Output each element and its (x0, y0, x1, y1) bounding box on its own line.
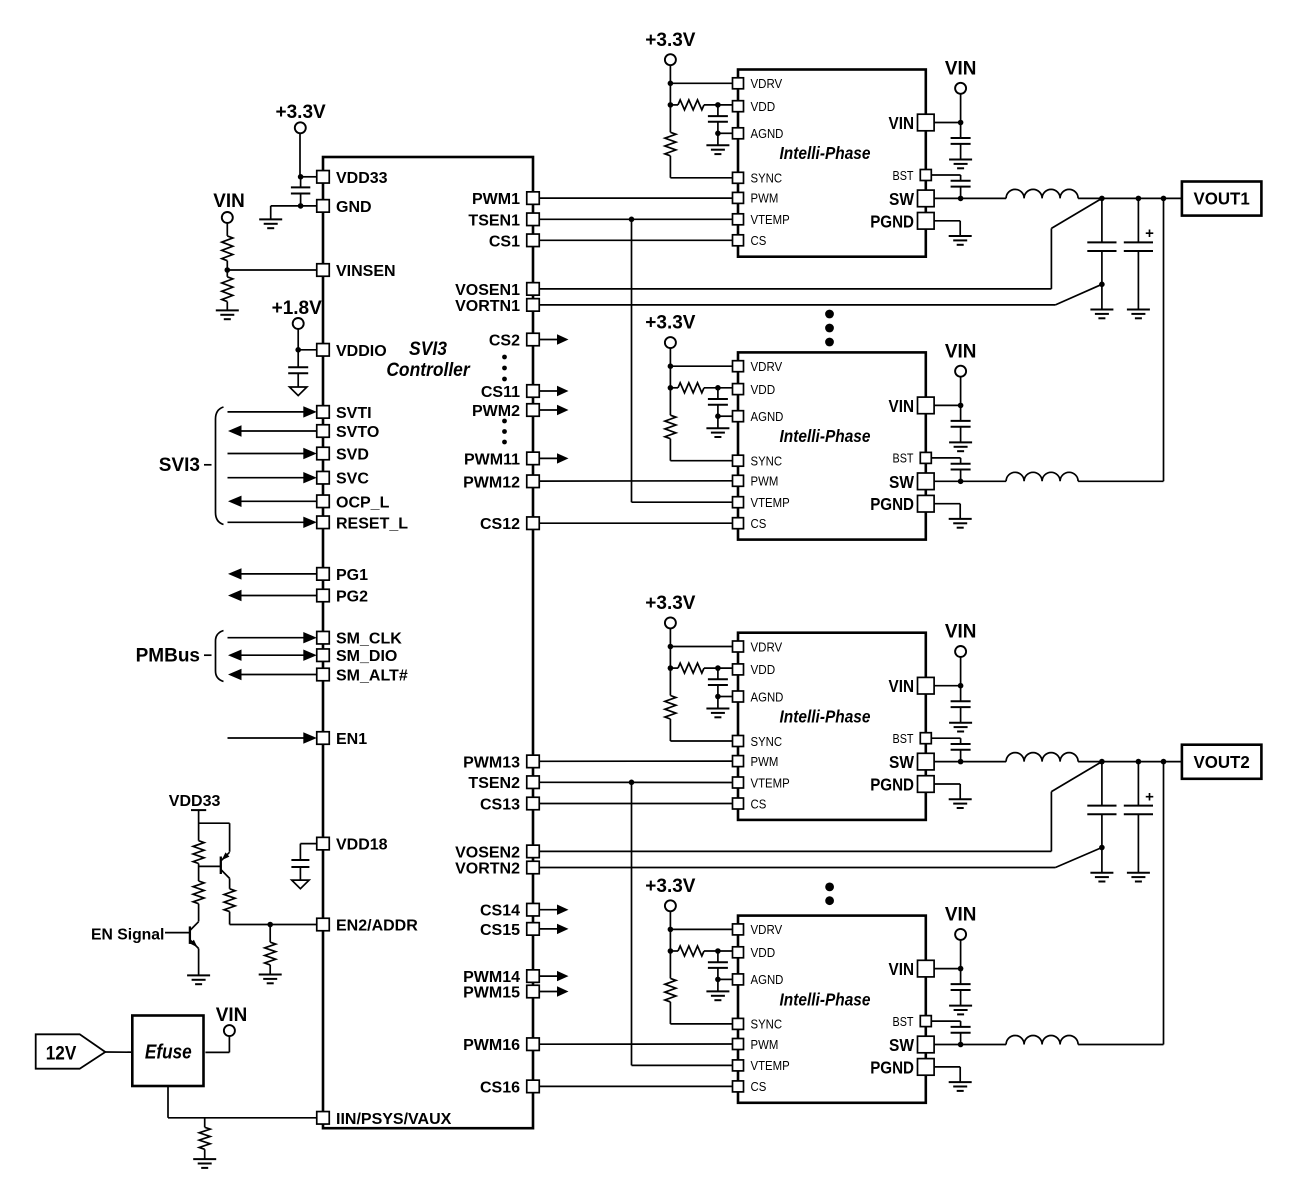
node VDRV junction (U2) (668, 81, 674, 87)
svg-text:SW: SW (889, 189, 914, 209)
wire VIN supply (U5) (934, 940, 961, 985)
supply VIN (U2) (945, 58, 977, 93)
wire CS12 to U3 (540, 522, 733, 524)
ground (Q2 emitter) (187, 975, 210, 984)
svg-text:PWM2: PWM2 (472, 403, 520, 420)
wire VINSEN (227, 269, 316, 271)
supply +1.8V (272, 298, 323, 329)
node VDD rail junction (U4) (668, 665, 674, 671)
svg-text:+3.3V: +3.3V (645, 30, 696, 51)
controller U1 (SVI3 Controller) (323, 157, 533, 1128)
wire PGND (U5) (934, 1067, 960, 1082)
inductor L4 (U5) (1006, 1036, 1078, 1045)
wire SVD input arrow (228, 448, 317, 459)
pin AGND of U4 (733, 689, 784, 704)
wire PWM11 stub arrow (540, 453, 569, 463)
node VIN junction (U4) (958, 683, 964, 689)
svg-text:+3.3V: +3.3V (645, 593, 696, 614)
wire +3.3V rail (U3) (669, 348, 671, 415)
pin PGND of U4 (870, 775, 934, 795)
svg-text:CS1: CS1 (489, 233, 520, 250)
net flag 12V (36, 1034, 106, 1068)
ground VIN cap (U3) (949, 442, 972, 451)
svg-text:PGND: PGND (870, 494, 914, 514)
pin SVTO of U1 (317, 424, 380, 441)
wire inductor to VOUT1 node (1078, 197, 1182, 199)
ground ceramic cap (VOUT1) (1090, 310, 1113, 319)
svg-text:SW: SW (889, 1035, 914, 1055)
node VDD rail junction (U3) (668, 385, 674, 391)
node AGND junction (U4) (715, 694, 721, 700)
wire +3.3V to VDD33 (300, 133, 317, 176)
pin VORTN2 of U1 (455, 861, 539, 878)
pin PGND of U3 (870, 494, 934, 514)
pin PWM2 of U1 (472, 403, 539, 420)
wire Efuse output to VIN (205, 1036, 229, 1053)
svg-text:CS: CS (751, 796, 767, 811)
svg-text:SW: SW (889, 472, 914, 492)
wire VDRV (U5) (670, 928, 732, 930)
pin GND of U1 (317, 199, 372, 216)
resistor SYNC pulldown (U4) (665, 696, 676, 720)
node AGND junction (U3) (715, 413, 721, 419)
wire TSEN2 to U4 VTEMP (540, 781, 733, 783)
node SW/BST junction (U4) (958, 759, 964, 765)
pin VDD18 of U1 (317, 837, 388, 854)
pin PWM15 of U1 (463, 985, 539, 1002)
pin VDRV of U3 (733, 359, 783, 374)
ground VIN cap (U5) (949, 1006, 972, 1015)
pin PWM11 of U1 (464, 451, 539, 468)
pin PWM12 of U1 (463, 474, 539, 491)
svg-text:SVTI: SVTI (336, 405, 372, 422)
wire VORTN2 sense (540, 848, 1102, 868)
svg-text:IIN/PSYS/VAUX: IIN/PSYS/VAUX (336, 1111, 452, 1128)
pin VOSEN1 of U1 (455, 282, 539, 299)
wire +3.3V rail (U4) (669, 628, 671, 695)
svg-text:+1.8V: +1.8V (272, 298, 323, 319)
wire PGND (U4) (934, 784, 960, 799)
wire PWM14 stub arrow (540, 971, 569, 981)
wire VOSEN2 sense (540, 762, 1102, 852)
wire SM_CLK input arrow (228, 632, 317, 643)
svg-text:VTEMP: VTEMP (751, 775, 790, 790)
pin PWM16 of U1 (463, 1037, 539, 1054)
node AGND junction (U5) (715, 977, 721, 983)
pin CS13 of U1 (480, 797, 539, 814)
pin VINSEN of U1 (317, 263, 396, 280)
pin VIN of U5 (889, 959, 935, 979)
capacitor BST (U3) (931, 458, 971, 481)
pin VDD of U4 (733, 662, 776, 677)
svg-text:PGND: PGND (870, 211, 914, 231)
ground electrolytic cap (VOUT2) (1127, 873, 1150, 882)
wire PWM2 stub arrow (540, 405, 569, 415)
svg-text:BST: BST (893, 451, 914, 466)
svg-text:+3.3V: +3.3V (645, 313, 696, 334)
resistor R6 (EN2 pulldown) (265, 925, 276, 975)
supply VDD33 (EN2 circuit) (169, 793, 221, 810)
node VDD rail junction (U5) (668, 948, 674, 954)
node TSEN2 branch (629, 780, 635, 786)
wire CS1 to U2 (540, 239, 733, 241)
node VOUT1 return junction (1099, 282, 1105, 288)
ground (EN2 pulldown) (259, 975, 282, 984)
node SW/BST junction (U3) (958, 479, 964, 485)
capacitor ceramic (VOUT1) (1087, 198, 1116, 309)
Efuse U6 (132, 1016, 203, 1087)
pin SVC of U1 (317, 471, 370, 488)
capacitor C2 (VDDIO decoupling) (288, 350, 308, 387)
pin VDRV of U5 (733, 922, 783, 937)
capacitor VDD decoupling (U5) (708, 951, 728, 991)
pin CS of U2 (733, 233, 767, 248)
svg-text:12V: 12V (46, 1043, 77, 1064)
svg-text:SYNC: SYNC (751, 454, 783, 469)
svg-text:SVC: SVC (336, 471, 369, 488)
svg-text:PWM: PWM (751, 754, 779, 769)
svg-text:EN1: EN1 (336, 731, 367, 748)
pin TSEN2 of U1 (468, 775, 539, 792)
ground electrolytic cap (VOUT1) (1127, 310, 1150, 319)
svg-text:VIN: VIN (945, 341, 977, 362)
analog ground (VDD18) (292, 880, 309, 889)
svg-text:VIN: VIN (889, 676, 915, 696)
pin SVTI of U1 (317, 405, 372, 422)
transistor Q1 (PNP) (221, 852, 230, 878)
resistor R1 (VIN divider upper) (222, 236, 233, 261)
node VIN junction (U3) (958, 403, 964, 409)
svg-text:SVTO: SVTO (336, 424, 379, 441)
node EN2/ADDR junction (267, 922, 273, 928)
wire base of Q1 (199, 865, 221, 867)
svg-text:VTEMP: VTEMP (751, 212, 790, 227)
svg-text:VDRV: VDRV (751, 76, 783, 91)
pin VIN of U3 (889, 396, 935, 416)
node AGND junction (U2) (715, 131, 721, 137)
ground PGND (U2) (949, 236, 972, 245)
svg-text:VOSEN2: VOSEN2 (455, 844, 520, 861)
svg-text:PGND: PGND (870, 1057, 914, 1077)
svg-text:PWM13: PWM13 (463, 754, 520, 771)
pin VDDIO of U1 (317, 343, 387, 360)
pin CS of U5 (733, 1079, 767, 1094)
wire SW to inductor (U5) (934, 1044, 1006, 1046)
svg-text:SM_DIO: SM_DIO (336, 648, 397, 665)
pin PWM of U4 (733, 754, 779, 769)
pin PG1 of U1 (317, 567, 368, 584)
svg-text:PWM15: PWM15 (463, 985, 520, 1002)
wire OCP_L output arrow (228, 496, 317, 507)
wire PGND (U3) (934, 504, 960, 519)
capacitor BST (U4) (931, 738, 971, 761)
wire VORTN1 sense (540, 284, 1102, 305)
svg-text:+3.3V: +3.3V (645, 876, 696, 897)
wire +1.8V to VDDIO (298, 329, 316, 350)
Intelli-Phase U3 title (780, 426, 871, 446)
node VDD cap junction (U3) (715, 385, 721, 391)
node VDRV junction (U4) (668, 644, 674, 650)
pin PGND of U5 (870, 1057, 934, 1077)
Intelli-Phase U4 title (780, 706, 871, 726)
node VDD cap junction (U5) (715, 948, 721, 954)
pin PWM of U2 (733, 191, 779, 206)
transistor Q2 (NPN) (190, 922, 199, 949)
supply +3.3V (U5) (645, 876, 696, 911)
pin VTEMP of U5 (733, 1058, 790, 1073)
pin SW of U5 (889, 1035, 934, 1055)
ground PGND (U5) (949, 1082, 972, 1091)
pin CS of U3 (733, 516, 767, 531)
pin PGND of U2 (870, 211, 934, 231)
svg-text:CS12: CS12 (480, 516, 520, 533)
wire SM_DIO bidirectional arrow (228, 650, 317, 661)
capacitor ceramic (VOUT2) (1087, 762, 1116, 873)
pin AGND of U2 (733, 126, 784, 141)
pin CS16 of U1 (480, 1079, 539, 1096)
supply VIN (U4) (945, 622, 977, 657)
svg-text:Intelli-Phase: Intelli-Phase (780, 143, 871, 163)
wire R5 to EN2/ADDR (230, 912, 317, 925)
svg-text:VINSEN: VINSEN (336, 263, 396, 280)
wire resistor to VDD pin (U5) (670, 950, 732, 952)
svg-text:SVD: SVD (336, 447, 369, 464)
svg-text:VOSEN1: VOSEN1 (455, 282, 520, 299)
wire SW to inductor (U4) (934, 761, 1006, 763)
wire PG1 output arrow (228, 568, 317, 579)
svg-text:OCP_L: OCP_L (336, 494, 390, 511)
wire VDD33 rail (198, 810, 200, 841)
svg-text:GND: GND (336, 199, 372, 216)
wire VDD33 branch to Q1 emitter (199, 823, 230, 852)
resistor SYNC pulldown (U3) (665, 415, 676, 439)
capacitor C1 (VDD33 decoupling) (291, 177, 310, 206)
wire PWM15 stub arrow (540, 986, 569, 996)
svg-text:Efuse: Efuse (145, 1042, 192, 1064)
pin VTEMP of U3 (733, 495, 790, 510)
wire +3.3V rail (U5) (669, 911, 671, 978)
ellipsis dots between PWM2 and PWM11 (502, 419, 507, 445)
wire SVC input arrow (228, 472, 317, 483)
Intelli-Phase U2 title (780, 143, 871, 163)
svg-text:VDRV: VDRV (751, 922, 783, 937)
pin SVD of U1 (317, 447, 369, 464)
svg-text:CS16: CS16 (480, 1079, 520, 1096)
svg-text:SM_CLK: SM_CLK (336, 631, 402, 648)
PMBus bus label and bracket (136, 631, 224, 682)
resistor VDD filter (U3) (678, 383, 704, 393)
wire R1 to VINSEN node (226, 261, 228, 277)
wire Efuse sense to IIN/PSYS/VAUX (168, 1086, 317, 1118)
svg-text:PGND: PGND (870, 775, 914, 795)
pin VIN of U4 (889, 676, 935, 696)
wire VIN to R1 (226, 223, 228, 236)
svg-text:VDDIO: VDDIO (336, 343, 387, 360)
wire resistor to VDD pin (U3) (670, 387, 732, 389)
resistor SYNC pulldown (U2) (665, 132, 676, 156)
wire resistor to VDD pin (U4) (670, 667, 732, 669)
node VDD cap junction (U4) (715, 665, 721, 671)
capacitor BST (U5) (931, 1021, 971, 1044)
svg-text:PWM: PWM (751, 1037, 779, 1052)
wire Q1 collector to R5 (229, 878, 231, 888)
svg-text:Intelli-Phase: Intelli-Phase (780, 706, 871, 726)
wire SVTO output arrow (228, 425, 317, 436)
capacitor VIN decoupling (U5) (951, 984, 971, 1006)
node VIN junction (U5) (958, 966, 964, 972)
svg-text:VDD18: VDD18 (336, 837, 388, 854)
node VIN junction (U2) (958, 120, 964, 126)
svg-text:VIN: VIN (889, 396, 915, 416)
pin VTEMP of U2 (733, 212, 790, 227)
svg-text:VIN: VIN (213, 191, 245, 212)
pin PWM of U3 (733, 474, 779, 489)
pin CS of U4 (733, 796, 767, 811)
pin AGND of U3 (733, 409, 784, 424)
ground VIN cap (U4) (949, 723, 972, 732)
pin VTEMP of U4 (733, 775, 790, 790)
phase ellipsis dots (VOUT1 group) (825, 310, 834, 347)
pin SYNC of U5 (733, 1017, 783, 1032)
svg-text:TSEN2: TSEN2 (468, 775, 520, 792)
pin VDRV of U4 (733, 639, 783, 654)
svg-text:SM_ALT#: SM_ALT# (336, 668, 408, 685)
wire R2 to ground (226, 302, 228, 311)
pin VDD of U3 (733, 382, 776, 397)
pin BST of U4 (893, 731, 932, 746)
wire PWM13 to U4 (540, 760, 733, 762)
svg-text:PMBus: PMBus (136, 646, 200, 667)
pin BST of U3 (893, 451, 932, 466)
capacitor electrolytic (VOUT1) (1124, 198, 1154, 309)
wire AGND (U3) (718, 415, 733, 417)
pin SYNC of U3 (733, 454, 783, 469)
svg-text:BST: BST (893, 168, 914, 183)
wire PGND (U2) (934, 221, 960, 236)
node VOUT1 junction 2 (1136, 196, 1142, 202)
pin VDRV of U2 (733, 76, 783, 91)
svg-text:VDD: VDD (751, 662, 776, 677)
capacitor electrolytic (VOUT2) (1124, 762, 1154, 873)
supply +3.3V (controller) (276, 102, 327, 133)
ellipsis dots between CS2 and CS11 (502, 355, 507, 382)
phase ellipsis dots (VOUT2 group) (825, 883, 834, 906)
svg-text:VORTN1: VORTN1 (455, 298, 520, 315)
svg-text:Intelli-Phase: Intelli-Phase (780, 989, 871, 1009)
svg-text:Controller: Controller (386, 360, 471, 381)
resistor R7 (IIN sense) (199, 1118, 210, 1159)
node VOUT2 junction 2 (1136, 759, 1142, 765)
svg-text:VDD: VDD (751, 99, 776, 114)
capacitor VDD decoupling (U4) (708, 668, 728, 708)
node SW/BST junction (U5) (958, 1042, 964, 1048)
wire CS16 to U5 (540, 1085, 733, 1087)
pin SW of U3 (889, 472, 934, 492)
pin VORTN1 of U1 (455, 298, 539, 315)
supply +3.3V (U4) (645, 593, 696, 628)
pin SW of U4 (889, 752, 934, 772)
node GND junction (298, 203, 304, 209)
svg-text:AGND: AGND (751, 972, 784, 987)
SVI3 bus label and bracket (159, 407, 224, 525)
pin AGND of U5 (733, 972, 784, 987)
wire SYNC (U2) (670, 156, 732, 178)
EN Signal label and base wire (91, 926, 190, 943)
svg-text:PG1: PG1 (336, 567, 368, 584)
supply VIN (U3) (945, 341, 977, 376)
svg-text:AGND: AGND (751, 126, 784, 141)
resistor R4 (Q2 collector) (193, 881, 204, 904)
pin IIN/PSYS/VAUX of U1 (317, 1111, 452, 1128)
wire PWM1 to U2 (540, 197, 733, 199)
supply VIN (divider) (213, 191, 245, 223)
wire VOSEN1 sense (540, 198, 1102, 289)
wire R3 to Q1 base node (198, 864, 200, 882)
pin RESET_L of U1 (317, 515, 408, 532)
svg-text:VIN: VIN (889, 959, 915, 979)
svg-text:VDD33: VDD33 (336, 170, 388, 187)
pin PWM1 of U1 (472, 191, 539, 208)
svg-text:EN Signal: EN Signal (91, 926, 164, 943)
wire SYNC (U4) (670, 719, 732, 741)
pin SW of U2 (889, 189, 934, 209)
svg-text:CS13: CS13 (480, 797, 520, 814)
pin BST of U5 (893, 1014, 932, 1029)
wire CS15 stub arrow (540, 924, 569, 934)
supply VIN (U5) (945, 905, 977, 940)
svg-text:EN2/ADDR: EN2/ADDR (336, 918, 418, 935)
svg-text:AGND: AGND (751, 689, 784, 704)
node VDD33 junction (298, 174, 304, 180)
supply VIN (Efuse output) (216, 1005, 248, 1036)
svg-text:CS15: CS15 (480, 922, 520, 939)
ground PGND (U3) (949, 519, 972, 528)
svg-text:RESET_L: RESET_L (336, 515, 408, 532)
wire SYNC (U3) (670, 439, 732, 461)
net label VOUT2 (1182, 745, 1262, 779)
wire CS14 stub arrow (540, 905, 569, 915)
wire VDRV (U2) (670, 82, 732, 84)
wire EN1 input arrow (228, 732, 317, 743)
wire SYNC (U5) (670, 1002, 732, 1024)
wire CS13 to U4 (540, 803, 733, 805)
wire GND pin to ground (271, 206, 317, 220)
Intelli-Phase U4 box (738, 633, 926, 820)
capacitor VDD decoupling (U2) (708, 105, 728, 145)
pin CS2 of U1 (489, 333, 539, 350)
wire AGND (U5) (718, 978, 733, 980)
svg-text:AGND: AGND (751, 409, 784, 424)
svg-text:PG2: PG2 (336, 589, 368, 606)
pin VDD33 of U1 (317, 170, 388, 187)
svg-text:VIN: VIN (889, 113, 915, 133)
pin EN1 of U1 (317, 731, 367, 748)
svg-text:CS11: CS11 (481, 384, 520, 401)
ground (IIN sense) (193, 1159, 216, 1168)
svg-text:PWM1: PWM1 (472, 191, 520, 208)
node VINSEN junction (225, 267, 231, 273)
pin SM_CLK of U1 (317, 631, 402, 648)
ground (GND pin) (259, 219, 282, 228)
pin SM_ALT# of U1 (317, 668, 408, 685)
ground AGND (U5) (706, 991, 729, 1000)
wire AGND (U2) (718, 132, 733, 134)
node VOUT1 junction 3 (1161, 196, 1167, 202)
resistor VDD filter (U5) (678, 946, 704, 956)
svg-text:SYNC: SYNC (751, 1017, 783, 1032)
wire VIN supply (U3) (934, 376, 961, 421)
ground (VIN divider) (216, 310, 239, 319)
